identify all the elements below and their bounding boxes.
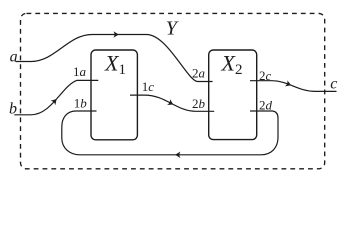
- svg-text:Y: Y: [166, 17, 179, 39]
- svg-text:1a: 1a: [73, 64, 87, 79]
- arrowhead on wire 1c (down-right): [167, 99, 175, 107]
- box X1: [91, 50, 137, 140]
- arrowhead on wire a (rightward): [113, 31, 118, 38]
- box X2: [209, 50, 257, 140]
- svg-text:b: b: [9, 101, 17, 118]
- wire b to port 1a: [14, 80, 98, 114]
- svg-text:1b: 1b: [74, 95, 88, 110]
- arrowhead on wire 2c (down-right): [285, 80, 292, 88]
- svg-text:2a: 2a: [192, 65, 206, 80]
- wire 1c to 2b: [130, 95, 214, 111]
- svg-text:2c: 2c: [259, 68, 272, 83]
- wire 2c to c: [250, 81, 337, 92]
- outer dashed box Y: [21, 13, 325, 168]
- arrowhead on wire b (up-right): [51, 97, 60, 105]
- arrowhead on feedback wire (leftward): [175, 152, 180, 159]
- svg-text:a: a: [10, 48, 18, 65]
- svg-text:2d: 2d: [259, 98, 273, 113]
- feedback wire 2d to 1b: [62, 111, 278, 155]
- wire a to port 2a: [16, 35, 213, 82]
- svg-text:1c: 1c: [142, 79, 155, 94]
- svg-text:2b: 2b: [192, 96, 206, 111]
- svg-text:c: c: [330, 76, 337, 93]
